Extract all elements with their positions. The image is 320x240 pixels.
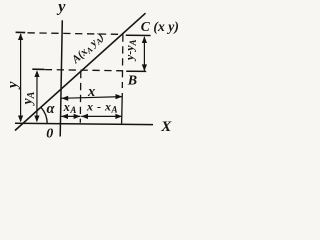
svg-text:y-yA: y-yA — [123, 39, 138, 62]
svg-text:xA: xA — [63, 100, 77, 115]
dashed horizontal at C level — [28, 33, 123, 35]
dashed vertical through C and B — [121, 34, 124, 88]
x measure line — [61, 97, 122, 99]
angle arc — [41, 107, 47, 123]
C level right tick — [126, 34, 151, 36]
y measure line — [20, 34, 22, 121]
dashed vertical through A — [79, 71, 82, 123]
svg-text:C (x y): C (x y) — [141, 19, 179, 34]
y minus y_A measure line — [143, 37, 145, 71]
x_A measure line — [61, 115, 80, 117]
y_A measure line — [36, 72, 38, 122]
dashed horizontal at A level — [45, 70, 123, 71]
svg-text:α: α — [47, 101, 56, 117]
svg-text:A(xA yA): A(xA yA) — [69, 31, 107, 67]
svg-text:x - xA: x - xA — [86, 99, 118, 114]
svg-text:y: y — [5, 81, 21, 90]
x-axis — [15, 123, 153, 124]
B level right tick — [126, 70, 146, 72]
svg-text:0: 0 — [46, 127, 53, 142]
line L through A and C — [15, 13, 146, 130]
svg-text:y: y — [56, 0, 66, 15]
y-axis — [60, 20, 62, 136]
solid vertical tick below B to x-axis — [121, 93, 124, 124]
svg-text:X: X — [160, 119, 172, 135]
y_A measure top tick — [32, 68, 44, 70]
svg-text:x: x — [87, 84, 95, 100]
svg-text:B: B — [127, 73, 137, 88]
y measure top tick — [16, 31, 26, 33]
x minus x_A measure line — [81, 115, 122, 117]
svg-text:yA: yA — [20, 91, 37, 106]
